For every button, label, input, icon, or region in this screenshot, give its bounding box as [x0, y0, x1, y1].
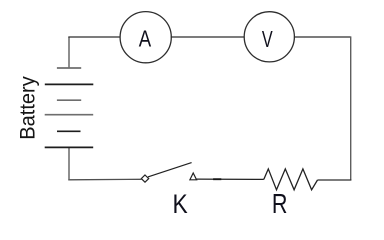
- svg-text:R: R: [272, 188, 288, 219]
- battery plate long 3 (bottom): [45, 146, 93, 148]
- wire overlap segment (darker): [213, 178, 221, 180]
- wire resistor to switch contact: [197, 178, 264, 180]
- battery plate long 2: [45, 114, 93, 116]
- ammeter U1 circle: [120, 12, 171, 63]
- wire voltmeter to top-right corner: [294, 36, 351, 38]
- switch K pivot diamond: [141, 175, 148, 182]
- wire switch to bottom-left corner: [68, 178, 141, 181]
- wire bottom-right to resistor: [318, 179, 352, 181]
- battery plate long 1 (positive): [45, 83, 94, 85]
- switch K blade: [148, 163, 192, 177]
- svg-text:K: K: [173, 188, 188, 219]
- switch K fixed contact triangle: [190, 173, 197, 180]
- battery plate short 2: [57, 99, 81, 101]
- resistor R zigzag: [264, 169, 318, 190]
- wire bottom-left vertical (to battery bottom plate): [68, 147, 70, 180]
- battery plate short 1 (negative, top): [57, 67, 81, 69]
- voltmeter U2 circle: [244, 12, 294, 62]
- wire top-left corner (battery top to ammeter): [68, 37, 70, 68]
- wire ammeter to voltmeter: [171, 36, 245, 38]
- wire right vertical: [350, 36, 352, 180]
- svg-text:V: V: [262, 26, 273, 52]
- svg-text:Battery: Battery: [17, 76, 40, 140]
- svg-text:A: A: [139, 25, 152, 51]
- battery plate short 3: [57, 130, 81, 132]
- wire top-left horizontal: [68, 36, 121, 38]
